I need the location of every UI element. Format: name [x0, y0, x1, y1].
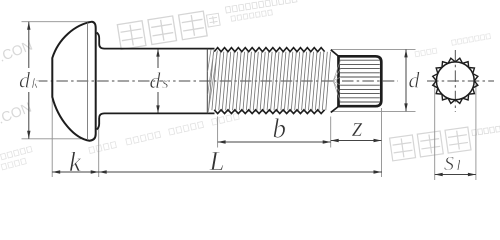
svg-text:z: z — [351, 112, 363, 143]
svg-text:k: k — [69, 147, 82, 177]
svg-text:b: b — [273, 113, 287, 143]
svg-text:L: L — [209, 146, 225, 176]
svg-text:d: d — [409, 68, 421, 93]
